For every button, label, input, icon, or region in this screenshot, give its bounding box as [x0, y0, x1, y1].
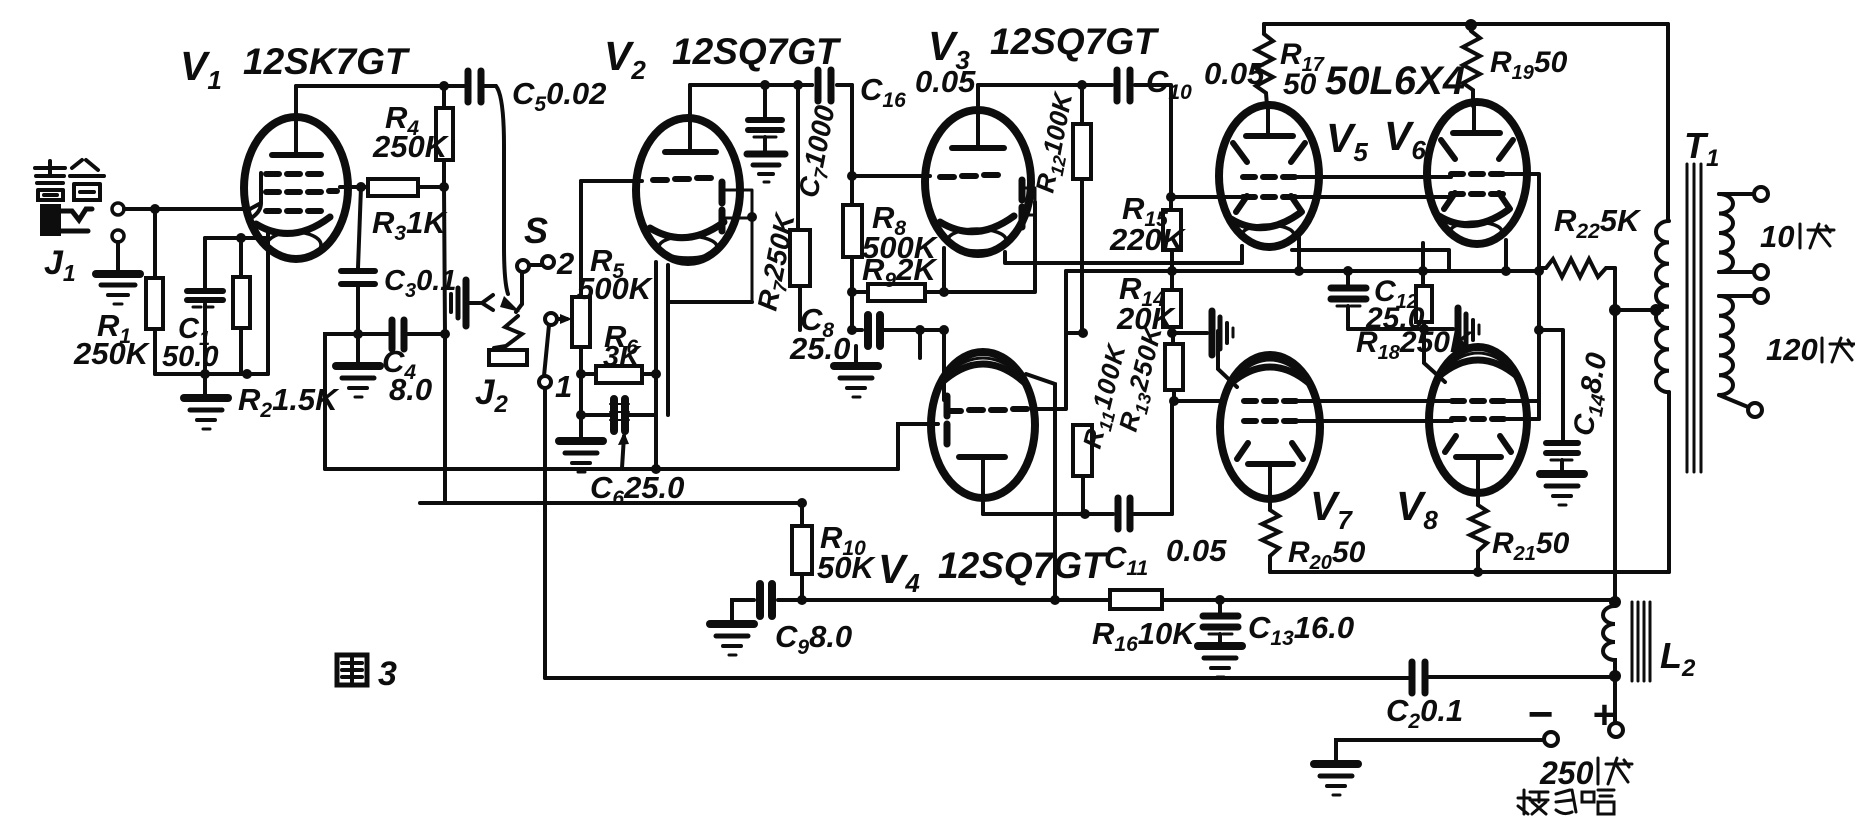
wire diode node to return	[668, 300, 752, 304]
wire ground bus under R1/C1/R2	[155, 372, 268, 376]
ground below J1	[96, 274, 140, 304]
resistor R22 zigzag	[1539, 259, 1615, 277]
node top bus R19	[1465, 19, 1477, 31]
wire V4 grid return riser	[898, 424, 938, 469]
resistor R4	[436, 86, 453, 187]
ground below C13	[1198, 634, 1242, 677]
capacitor C2	[1412, 662, 1425, 693]
node R6 right on cathode wire	[651, 369, 661, 379]
node R2 bottom	[242, 369, 252, 379]
tube V3 plate bar	[952, 145, 1004, 151]
transformer T1 primary winding	[1656, 221, 1669, 392]
node C8 right	[915, 325, 925, 335]
tube V4 cathode arcs top	[939, 358, 1027, 385]
node C6 left	[576, 410, 586, 420]
svg-text:50L6X4: 50L6X4	[1325, 59, 1465, 103]
wire C6 bus segment	[420, 501, 445, 505]
tube V4 plate lead	[981, 457, 985, 514]
tube V8 cathode hook	[1424, 330, 1445, 382]
svg-text:12SQ7GT: 12SQ7GT	[938, 545, 1108, 586]
tube V4 grid dashes	[947, 409, 1027, 411]
tube V6 plate bar	[1453, 104, 1500, 133]
node R3 left / C3 top	[356, 182, 366, 192]
capacitor C16	[811, 70, 852, 101]
svg-text:S: S	[524, 210, 548, 251]
tube V2 grid dashes	[653, 178, 711, 180]
node R11 bottom / C11 left	[1080, 509, 1090, 519]
label 話筒 (microphone)	[35, 160, 104, 200]
wire plus terminal drop	[1613, 676, 1617, 723]
wire bottom bus left of C2	[545, 676, 1408, 680]
capacitor C9	[732, 584, 802, 622]
tube V2 plate lead	[688, 85, 692, 152]
svg-text:R31K: R31K	[372, 205, 448, 245]
switch wiper circle to R5	[545, 313, 557, 325]
switch S contact circles	[517, 256, 554, 304]
ground below R5/C6	[559, 415, 603, 472]
capacitor C8	[852, 315, 920, 346]
potentiometer R5	[572, 181, 590, 415]
tube V5 grid dashes row2	[1243, 194, 1295, 200]
wire to V3 grid	[852, 174, 930, 178]
chassis ground right of R18	[1458, 308, 1479, 352]
svg-text:12SQ7GT: 12SQ7GT	[672, 31, 842, 72]
wire C6 bus to R10	[445, 501, 802, 505]
node B+ at y602	[1609, 596, 1621, 608]
svg-text:−: −	[1527, 690, 1553, 739]
wire C4 right down to C6 bus	[443, 334, 447, 503]
plus terminal	[1609, 723, 1623, 737]
node R2 top	[236, 233, 246, 243]
tube V2 cathode arcs	[650, 222, 724, 258]
resistor R10	[792, 503, 812, 600]
node C12 top	[1343, 266, 1353, 276]
ground below C14	[1540, 474, 1584, 505]
tube V2 envelope	[636, 118, 740, 262]
tube V7 envelope	[1220, 355, 1320, 499]
tube V8 cathode arcs top	[1438, 353, 1518, 377]
capacitor C12	[1331, 271, 1366, 329]
tube V1 grid dashes row1	[266, 171, 321, 177]
chassis ground right of R14	[1212, 311, 1233, 355]
tube V4 diode plates	[944, 396, 951, 444]
tube V1 plate bar	[272, 152, 321, 158]
tube V2 plate bar	[665, 149, 716, 155]
wire B bus y600	[802, 598, 1615, 602]
wire C5 right descending to switch	[484, 86, 508, 294]
wire V5 cathode to bus1	[1240, 246, 1244, 263]
switch S terminal 1 circle	[539, 376, 551, 388]
node bus2 right end	[1534, 266, 1544, 276]
svg-text:10: 10	[1760, 219, 1794, 254]
capacitor C7	[748, 85, 782, 152]
node V4 cathode at y600	[1050, 595, 1060, 605]
wire R22 right down	[1613, 268, 1617, 602]
jack J2 contacts	[470, 295, 527, 365]
svg-text:3: 3	[378, 655, 397, 693]
svg-text:250K: 250K	[73, 336, 151, 371]
tube V8 envelope	[1429, 347, 1527, 493]
tube V6 envelope	[1427, 102, 1527, 244]
capacitor C14	[1546, 443, 1578, 472]
capacitor C11	[1118, 498, 1172, 529]
svg-text:8.0: 8.0	[389, 372, 432, 407]
wire V5-V6 grid row1 link	[1295, 175, 1451, 179]
svg-text:250K: 250K	[372, 129, 450, 164]
tube V8 grid dashes row2	[1452, 416, 1504, 422]
node C13 top	[1215, 595, 1225, 605]
node R12/R11 mid	[1078, 328, 1088, 338]
wire R9 right to V3 diode riser	[944, 202, 1035, 292]
arrowhead into R5	[557, 314, 572, 324]
ground below C8	[834, 346, 878, 397]
secondary 10V terminals	[1719, 187, 1768, 279]
wire C11 right up to R13 node	[1170, 401, 1174, 514]
wire V4 plate to C11	[983, 512, 1113, 516]
resistor R14	[1163, 271, 1181, 333]
wire C8 right to V4 riser	[920, 328, 944, 332]
tube V3 grid dashes	[940, 175, 998, 177]
resistor R9	[852, 284, 944, 301]
node R7 top	[793, 80, 803, 90]
node V2 diode junction	[747, 212, 757, 222]
capacitor C1	[187, 291, 223, 307]
resistor R7	[790, 85, 810, 330]
wire C3 top stem	[358, 187, 361, 268]
wire V3 cathode riser	[942, 248, 946, 292]
resistor R12	[1073, 85, 1091, 333]
tube V6 grid dashes row1	[1451, 171, 1503, 177]
wire R8 node down to C8	[850, 292, 854, 330]
capacitor C10	[1117, 70, 1171, 197]
wire J1 bottom to ground	[116, 242, 120, 272]
capacitor C3	[341, 271, 375, 284]
tube V8 beam plates	[1445, 436, 1511, 452]
resistor R13	[1165, 333, 1183, 401]
tube V1 grid dashes row3	[266, 208, 321, 214]
tube V7 cathode hook	[1218, 331, 1237, 387]
node C1 bottom	[200, 369, 210, 379]
wire stub to V4 grid riser	[1066, 331, 1083, 335]
transformer T1 secondary 10V winding	[1719, 194, 1733, 272]
node R21 bottom	[1473, 567, 1483, 577]
capacitor C6	[581, 399, 656, 431]
chassis ground at J2	[445, 280, 466, 326]
svg-text:500K: 500K	[577, 271, 654, 306]
svg-text:50.0: 50.0	[162, 341, 218, 373]
wire R14 node to chassis ground	[1172, 331, 1207, 335]
svg-text:12SK7GT: 12SK7GT	[243, 41, 411, 82]
wire minus terminal to ground	[1336, 740, 1544, 762]
svg-text:25.0: 25.0	[789, 331, 850, 366]
wire C1 bottom stem	[203, 304, 207, 374]
resistor R8	[843, 176, 862, 292]
wire V6 left lead to bus2	[1421, 243, 1425, 271]
node V5 lead bus2	[1294, 266, 1304, 276]
node at R1 top	[150, 204, 160, 214]
ground below C7	[747, 154, 785, 182]
wire V5-V6 grid row2 link	[1295, 195, 1451, 199]
wire V2 diode return down	[666, 265, 670, 415]
tube V4 envelope	[931, 352, 1035, 498]
tube V8 grid dashes row1	[1452, 398, 1504, 404]
svg-text:50K: 50K	[817, 550, 876, 585]
resistor R20 zigzag	[1262, 510, 1279, 572]
tube V1 grid dashes row2	[266, 191, 337, 192]
resistor R21 zigzag	[1470, 505, 1487, 572]
wire C4 left loop down	[325, 334, 358, 469]
resistor R17 zigzag	[1256, 24, 1273, 106]
tube V7 cathode arcs top	[1230, 360, 1310, 384]
node C4 left	[353, 329, 363, 339]
wire V3 plate top bus	[978, 83, 1112, 87]
tube V1 cathode arcs	[256, 217, 330, 258]
wire V1 cathode down	[266, 230, 270, 374]
tube V7 grid dashes row1	[1244, 398, 1296, 404]
wire C3 bottom stem	[356, 284, 360, 334]
svg-text:C50.02: C50.02	[512, 76, 606, 116]
node C16/R8 junction	[847, 171, 857, 181]
svg-text:220K: 220K	[1109, 222, 1187, 257]
svg-text:120: 120	[1766, 332, 1818, 367]
wire V6 row1 to right riser	[1503, 174, 1539, 419]
resistor R6	[581, 366, 657, 383]
wire R5 top to V2 grid	[581, 179, 642, 183]
transformer T1 core	[1687, 164, 1701, 472]
wire bus1 V3 cathode to V5	[1005, 246, 1242, 263]
wire R1 top stem	[153, 209, 157, 278]
wire terminal 1 down to bottom bus	[543, 388, 547, 678]
switch arm diagonal to terminal 1	[544, 325, 549, 376]
wire top supply bus	[1264, 22, 1668, 26]
wire top bus right corner down to T1	[1666, 24, 1670, 221]
svg-text:R92K: R92K	[862, 252, 938, 292]
node R18 top	[1418, 266, 1428, 276]
wire cathode row to C1/R2 tops	[205, 236, 268, 240]
node R10 top	[797, 498, 807, 508]
wire V4 grid riser	[1032, 271, 1066, 409]
node V4 diode riser top	[939, 325, 949, 335]
wire junction to V5 grid row2	[1171, 195, 1240, 199]
tube V7 plate bar	[1248, 464, 1293, 510]
tube V4 plate bar	[959, 454, 1005, 460]
svg-text:50: 50	[1283, 68, 1317, 101]
capacitor C13	[1203, 600, 1238, 634]
wire R4 bottom to C4 right	[444, 187, 445, 334]
tube V3 plate lead	[976, 85, 980, 148]
tube V6 grid dashes row2	[1451, 191, 1503, 197]
resistor R16	[1110, 590, 1162, 609]
label 圖 3 (figure 3)	[337, 655, 367, 685]
node T1 tap	[1609, 304, 1621, 316]
node R4 top	[439, 81, 449, 91]
ground below C9	[710, 624, 754, 655]
tube V3 envelope	[925, 110, 1031, 254]
tube V8 plate bar	[1456, 457, 1501, 505]
wire V1 g2 to R3	[340, 185, 368, 189]
wire bus2 screen bus	[1066, 269, 1539, 273]
node R9 right / V3 cathode	[939, 287, 949, 297]
node diode return at y469	[651, 464, 661, 474]
jack J1	[42, 203, 124, 242]
tube V3 diode hooks	[1026, 188, 1035, 215]
ground below C1	[184, 374, 228, 429]
svg-text:C20.1: C20.1	[1386, 693, 1463, 733]
svg-text:R1610K: R1610K	[1092, 616, 1197, 656]
wire bottom bus right of C2	[1429, 675, 1615, 679]
wire R1 bottom stem	[153, 329, 157, 374]
tube V6 cathode arcs	[1439, 210, 1508, 242]
tube V5 beam plates	[1233, 143, 1305, 212]
inductor L2 core	[1632, 602, 1650, 681]
ground below minus wire	[1314, 764, 1358, 795]
ground below C3/C4 node	[336, 336, 380, 397]
wire C1 top stem	[203, 238, 207, 288]
wire tap to primary	[1615, 308, 1662, 312]
resistor R11	[1073, 425, 1092, 514]
wire V5 right lead to bus2	[1297, 230, 1301, 271]
tube V1 envelope	[244, 117, 348, 259]
tube V5 cathode arcs	[1231, 213, 1300, 245]
node C7 top	[760, 80, 770, 90]
secondary 120V terminals	[1719, 289, 1768, 417]
svg-text:C625.0: C625.0	[590, 470, 684, 510]
node bus2 R15	[1167, 266, 1177, 276]
node R4 bottom / R3 junction	[439, 182, 449, 192]
node V6 lead bus2	[1501, 266, 1511, 276]
inductor L2 winding	[1603, 606, 1615, 676]
resistor R18	[1416, 271, 1432, 329]
resistor R2	[233, 238, 250, 374]
tube V5 envelope	[1219, 105, 1319, 247]
capacitor C4	[358, 320, 445, 349]
node T1 tap right	[1650, 304, 1662, 316]
node R10 bottom	[797, 595, 807, 605]
node L2 bottom	[1609, 670, 1621, 682]
tube V5 grid dashes row1	[1243, 174, 1295, 180]
node R8 bottom / R9 left	[847, 287, 857, 297]
wire V4 cathode to y600	[1026, 374, 1055, 600]
minus terminal	[1544, 732, 1558, 746]
svg-text:C98.0: C98.0	[775, 619, 852, 659]
tube V2 diode plates	[719, 182, 726, 231]
node C4 right	[440, 329, 450, 339]
tube V1 grid hook	[248, 173, 261, 220]
tube V3 diode plates	[1019, 180, 1026, 227]
wire V6 right lead to bus2	[1504, 240, 1508, 271]
svg-text:3K: 3K	[603, 341, 642, 373]
node C14 branch	[1534, 325, 1544, 335]
svg-text:1: 1	[555, 369, 572, 404]
tube V7 beam plates	[1237, 443, 1303, 459]
wire J1 tip to V1 grid	[124, 207, 250, 211]
svg-text:+: +	[1592, 693, 1615, 737]
wire V7-V8 grid row1 link	[1296, 399, 1539, 403]
wire V1 plate top bus	[296, 84, 464, 88]
tube V6 beam plates	[1441, 140, 1513, 209]
tube V7 grid dashes row2	[1244, 418, 1296, 424]
wire stub V4 top	[918, 330, 922, 358]
wire R13 node to V7 grid	[1174, 399, 1222, 403]
wire C12/R18 bottom tie	[1348, 327, 1453, 331]
tube V3 cathode arcs	[940, 216, 1014, 251]
node C10/R15 junction	[1166, 192, 1176, 202]
transformer T1 secondary 120V winding	[1719, 296, 1733, 395]
node R13 bottom	[1169, 396, 1179, 406]
svg-text:250: 250	[1539, 755, 1594, 791]
wire V7-V8 grid row2 link	[1296, 419, 1539, 421]
resistor R3	[368, 179, 444, 196]
svg-text:2: 2	[556, 246, 574, 281]
label 接线路	[1518, 790, 1614, 814]
wire cathode return y572	[1270, 570, 1669, 574]
node R14 bottom	[1167, 328, 1177, 338]
tube V1 plate lead	[294, 86, 298, 155]
wire arrow node to contact 2	[516, 304, 522, 312]
wire V2 cathode down to C6	[654, 262, 658, 469]
wire riser down to V4 diode plates	[942, 330, 946, 400]
resistor R1	[146, 278, 163, 329]
svg-text:0.05: 0.05	[1166, 533, 1227, 568]
arrowhead at switch wiper	[500, 296, 520, 312]
tube V2 diode hooks	[726, 190, 752, 302]
resistor R19 zigzag	[1463, 31, 1480, 106]
capacitor C5	[468, 71, 481, 102]
wire bottom loop y469	[325, 467, 898, 471]
resistor R15	[1163, 197, 1181, 271]
wire C14 branch	[1539, 330, 1563, 440]
tube V5 plate bar	[1246, 105, 1293, 136]
wire V5/V6 cathode tie	[1292, 250, 1449, 271]
node R12 top	[1077, 80, 1087, 90]
wire T1 primary bottom down	[1667, 392, 1671, 572]
svg-text:C1316.0: C1316.0	[1248, 610, 1354, 650]
wire C16 right down to V3 grid	[850, 85, 854, 176]
svg-text:12SQ7GT: 12SQ7GT	[990, 21, 1160, 62]
node R18 bottom	[1419, 324, 1429, 334]
wire V2 plate top bus	[690, 83, 812, 87]
node C8 left	[847, 325, 857, 335]
node R5 bottom / R6 left	[576, 369, 586, 379]
